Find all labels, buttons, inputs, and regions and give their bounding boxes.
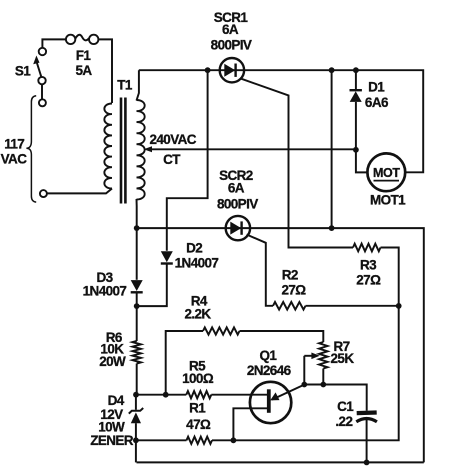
svg-text:D2: D2: [186, 241, 202, 256]
svg-text:.22: .22: [335, 414, 352, 429]
svg-text:Q1: Q1: [259, 348, 277, 363]
svg-text:20W: 20W: [99, 354, 126, 369]
resistor R3: [353, 244, 399, 306]
svg-text:CT: CT: [163, 152, 181, 167]
wire 12V rail: [136, 394, 186, 396]
transistor Q1: [233, 382, 304, 440]
svg-text:T1: T1: [117, 78, 133, 93]
svg-text:25K: 25K: [331, 351, 355, 366]
svg-text:C1: C1: [337, 399, 354, 414]
node secondary-D3: [134, 225, 140, 231]
SCR1: [220, 58, 244, 82]
svg-text:6A: 6A: [228, 181, 245, 196]
wire R7 to C1: [304, 385, 366, 411]
node R2-R3-gate bus: [396, 303, 402, 309]
terminal lower 117VAC: [40, 190, 47, 197]
diode D3: [131, 228, 143, 306]
node C1 bottom: [364, 460, 370, 466]
node SCR1 cathode bus: [329, 67, 335, 73]
wire secondary bottom lead: [136, 199, 138, 228]
zener D4: [129, 395, 143, 463]
wire top rail: [139, 70, 423, 172]
SCR2: [226, 216, 250, 240]
transformer T1 primary winding: [104, 104, 112, 189]
wire cathode bus vertical: [331, 70, 333, 228]
svg-text:D4: D4: [108, 393, 125, 408]
wire R1 to gate bus: [212, 306, 399, 440]
svg-text:1N4007: 1N4007: [175, 256, 219, 271]
resistor R1: [187, 437, 213, 444]
svg-text:240VAC: 240VAC: [149, 132, 196, 147]
svg-text:MOT: MOT: [373, 166, 400, 180]
wire primary bottom to terminal: [47, 189, 112, 194]
wire S1 top to fuse: [42, 39, 65, 47]
brace 117VAC: [26, 96, 36, 202]
svg-text:R3: R3: [360, 258, 377, 273]
svg-text:6A: 6A: [222, 22, 239, 37]
resistor R6: [133, 306, 141, 395]
diode D1: [350, 70, 362, 150]
diode D2: [137, 251, 173, 306]
potentiometer R7: [304, 342, 327, 385]
wire secondary top lead: [137, 70, 139, 100]
svg-text:27Ω: 27Ω: [356, 273, 381, 288]
svg-text:MOT1: MOT1: [370, 192, 406, 207]
transformer T1 secondary winding: [137, 100, 145, 200]
terminal upper 117VAC: [39, 99, 46, 106]
wire D2 branch top: [167, 70, 208, 251]
switch S1: [33, 48, 46, 85]
node R6-D4: [133, 392, 139, 398]
resistor R2: [273, 302, 399, 310]
node R4 left: [163, 392, 169, 398]
svg-text:47Ω: 47Ω: [186, 417, 211, 432]
node Q1 B1: [231, 437, 237, 443]
svg-text:800PIV: 800PIV: [211, 37, 252, 52]
wire SCR2 row: [137, 228, 424, 462]
wire R1 rail: [136, 439, 187, 441]
node R7 bottom: [320, 382, 326, 388]
wire ground rail: [137, 461, 424, 463]
svg-text:117: 117: [4, 136, 24, 151]
node secondary-D2: [205, 67, 211, 73]
node D2-D3-R6: [134, 303, 140, 309]
wire S1 to terminal: [41, 84, 43, 99]
transformer T1 core: [121, 98, 125, 204]
node D1-CT-motor: [353, 147, 359, 153]
capacitor C1: [356, 413, 377, 463]
resistor R5: [186, 391, 211, 398]
wire SCR2 gate: [247, 235, 273, 306]
svg-text:S1: S1: [15, 64, 31, 79]
center tap wire CT: [148, 148, 356, 150]
center tap arrow: [144, 146, 152, 152]
node R7 wiper-Q1: [301, 382, 307, 388]
node SCR2 cathode bus: [329, 225, 335, 231]
svg-text:D1: D1: [368, 79, 385, 94]
svg-text:27Ω: 27Ω: [281, 283, 306, 298]
node D1 anode: [353, 67, 359, 73]
fuse F1: [66, 35, 99, 44]
resistor R4: [166, 327, 324, 394]
svg-text:R2: R2: [282, 268, 298, 283]
svg-text:F1: F1: [76, 48, 92, 63]
svg-text:1N4007: 1N4007: [83, 284, 127, 299]
svg-text:800PIV: 800PIV: [217, 196, 258, 211]
wire to motor: [356, 150, 368, 173]
svg-text:2N2646: 2N2646: [247, 363, 292, 378]
svg-text:100Ω: 100Ω: [182, 371, 214, 386]
node D4 anode: [133, 437, 139, 443]
wire SCR1 gate: [241, 79, 353, 248]
svg-text:2.2K: 2.2K: [184, 307, 211, 322]
svg-text:5A: 5A: [75, 63, 92, 78]
svg-text:6A6: 6A6: [365, 95, 389, 110]
svg-text:VAC: VAC: [1, 152, 28, 167]
wire R5 to Q1: [211, 394, 268, 396]
svg-text:R1: R1: [189, 401, 206, 416]
wire fuse to primary top: [98, 39, 112, 103]
motor MOT1: [367, 153, 405, 191]
svg-text:ZENER: ZENER: [90, 433, 134, 448]
